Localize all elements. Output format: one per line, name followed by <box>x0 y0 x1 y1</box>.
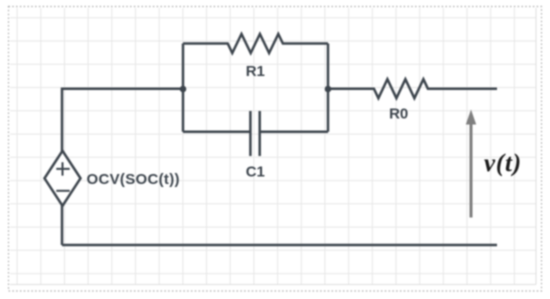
svg-text:OCV(SOC(t)): OCV(SOC(t)) <box>87 171 180 188</box>
capacitor C1 <box>250 111 259 156</box>
wire: source top up and right to node A <box>62 89 183 152</box>
minus sign of U1 <box>56 190 69 192</box>
resistor R1 <box>183 34 328 53</box>
wire: loop bottom right segment <box>260 131 328 134</box>
arrow v(t) head <box>466 110 476 125</box>
wire: bottom rail <box>62 244 497 247</box>
svg-text:C1: C1 <box>246 164 265 181</box>
node A (left junction dot) <box>180 86 187 93</box>
arrow v(t) shaft <box>470 122 473 218</box>
wire: RC loop left vertical <box>182 44 185 132</box>
svg-text:R1: R1 <box>246 63 265 80</box>
node B (right junction dot) <box>325 86 332 93</box>
wire: RC loop right vertical <box>327 44 330 132</box>
dependent voltage source U1 (diamond) <box>45 151 81 206</box>
plus sign of U1 <box>56 162 69 175</box>
svg-text:v(t): v(t) <box>484 150 522 177</box>
wire: loop bottom left segment <box>183 131 250 134</box>
svg-text:R0: R0 <box>389 106 408 123</box>
wire: source bottom to ground rail <box>61 205 64 246</box>
resistor R0 <box>328 79 497 98</box>
